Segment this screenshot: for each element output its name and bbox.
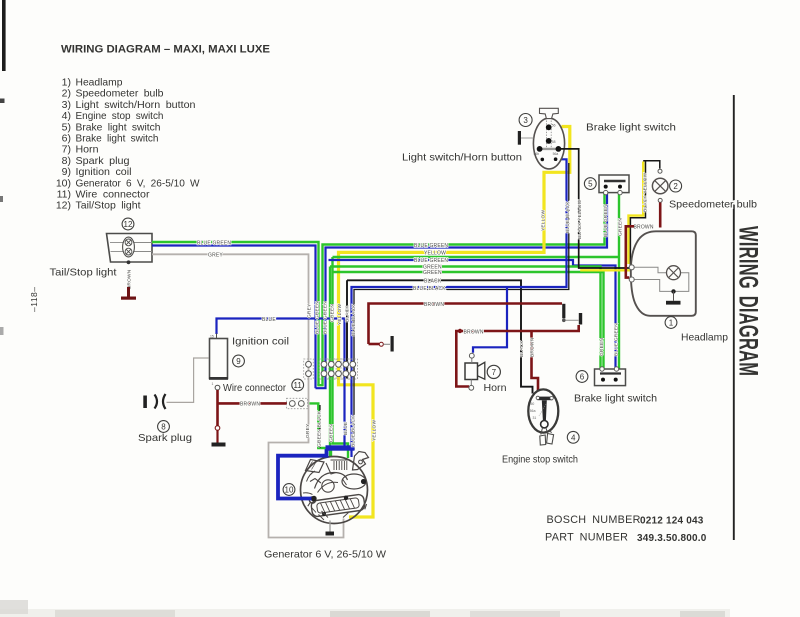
svg-text:4): 4) [62,110,71,122]
svg-text:Tail/Stop light: Tail/Stop light [76,200,141,212]
svg-text:BLUE BLACK: BLUE BLACK [565,201,571,233]
svg-text:56b: 56b [534,152,540,156]
wire black yellow (switch to headlamp) [558,149,631,268]
generator ground stem and pad [329,521,331,532]
wire green B (bundle to brake switch 6) [330,267,601,457]
svg-text:BOSCH NUMBER: BOSCH NUMBER [547,514,641,526]
ref circle 6 [576,371,588,383]
svg-text:6: 6 [580,373,585,382]
wire brown (horn circuit main) [369,304,563,345]
wire brown (coil ground) [216,390,219,426]
wire blue (coil to bundle) [217,319,345,450]
svg-text:BROWN: BROWN [240,402,260,408]
svg-text:GREEN: GREEN [599,338,605,356]
ref circle 3 [519,114,532,127]
light switch 3 body [518,108,565,169]
ref circle 5 [584,178,596,190]
svg-text:4: 4 [571,433,576,442]
spark plug lead [167,358,209,402]
svg-text:PART NUMBER: PART NUMBER [545,532,628,544]
generator blue terminal bar [326,445,355,450]
svg-text:9): 9) [62,166,71,178]
ref circle 2 [670,180,682,192]
svg-text:10: 10 [285,486,294,495]
ground (tail light brown) [121,287,136,300]
armature block [307,493,367,518]
svg-text:Brake light switch: Brake light switch [586,122,676,134]
legend list [56,77,200,212]
svg-text:BLACK YELLOW: BLACK YELLOW [642,172,648,212]
svg-text:GREEN: GREEN [329,424,335,442]
svg-text:WIRING DIAGRAM: WIRING DIAGRAM [733,226,763,376]
svg-text:3): 3) [62,99,71,111]
ground (coil) [212,443,226,447]
svg-text:Horn: Horn [484,382,507,394]
wire blue thick (generator loop) [278,449,327,499]
svg-text:6): 6) [62,133,71,145]
svg-text:BLUE GREEN: BLUE GREEN [613,323,619,356]
svg-text:11): 11) [57,189,71,201]
ref circle 7 [487,365,500,378]
svg-text:BLACK YELLOW: BLACK YELLOW [577,199,583,239]
svg-text:Spark plug: Spark plug [138,432,192,444]
svg-text:56: 56 [552,124,556,128]
svg-text:BLUE: BLUE [262,317,276,323]
wire U-turn green (to connector pair) [319,193,605,386]
svg-text:2): 2) [62,88,71,100]
engine stop switch 4 body [528,389,558,445]
svg-text:Wire connector: Wire connector [76,189,151,201]
ref circle 11 [292,379,304,391]
upper-left rhombus [306,460,325,473]
svg-text:BROWN: BROWN [464,330,484,336]
svg-text:GREEN BLACK: GREEN BLACK [317,410,323,447]
svg-text:Light switch/Horn button: Light switch/Horn button [76,99,196,111]
svg-text:10): 10) [56,177,71,189]
wire blue branch to horn [473,287,507,353]
svg-text:Ignition coil: Ignition coil [232,336,289,348]
generator 10 flywheel magneto [301,452,369,524]
svg-text:Speedometer bulb: Speedometer bulb [76,88,164,100]
svg-text:BLACK: BLACK [519,340,525,357]
svg-text:BLACK: BLACK [424,279,442,285]
svg-text:BLUE GREEN: BLUE GREEN [322,301,328,334]
svg-text:Tail/Stop light: Tail/Stop light [50,267,117,279]
svg-text:Engine stop switch: Engine stop switch [502,454,578,466]
wire green (tail light blue-green pair) [152,242,319,385]
speedometer bulb 2 [652,169,668,202]
wire black yellow (headlamp to speedometer bulb) [629,162,644,265]
svg-text:BROWN: BROWN [634,224,654,230]
svg-text:7: 7 [492,368,497,377]
svg-text:Horn: Horn [76,144,99,156]
wire blue black pair horizontal [352,159,567,457]
svg-text:11: 11 [294,381,303,390]
svg-text:BLUE GREEN: BLUE GREEN [314,301,320,334]
ignition coil 9 body [209,334,228,391]
wire blue (tail light blue-green pair) [152,246,316,389]
horn 7 body [465,353,485,390]
svg-text:12: 12 [124,220,133,229]
svg-text:BLUE BLACK: BLUE BLACK [413,286,446,292]
svg-text:–118–: –118– [29,286,39,312]
wire brown (speedo bulb to headlamp) [659,203,662,228]
svg-text:Brake light switch: Brake light switch [76,121,161,133]
svg-text:GREEN: GREEN [423,270,442,276]
svg-text:Spark plug: Spark plug [76,155,130,167]
ref circle 8 [158,421,170,433]
svg-text:Speedometer bulb: Speedometer bulb [669,199,757,211]
flag top right [353,452,369,471]
right vertical rule [733,95,735,540]
svg-text:58: 58 [552,140,556,144]
svg-text:BLACK: BLACK [344,305,350,322]
wire green A (switch5 right to bundle) [333,257,349,458]
svg-text:BROWN: BROWN [424,302,444,308]
svg-text:YELLOW: YELLOW [424,251,446,257]
scan edge: left black bar [2,0,6,71]
ref circle 1 [665,317,677,329]
svg-text:Headlamp: Headlamp [76,77,123,89]
svg-text:BROWN: BROWN [126,269,132,289]
ref circle 4 [567,431,579,443]
svg-text:1): 1) [62,77,71,89]
svg-text:YELLOW: YELLOW [540,210,546,231]
svg-text:Generator 6 V, 26-5/10 W: Generator 6 V, 26-5/10 W [264,549,386,561]
svg-text:Ignition coil: Ignition coil [76,166,132,178]
svg-text:5): 5) [62,121,71,133]
svg-text:YELLOW: YELLOW [371,420,377,441]
bolt left [309,497,315,503]
ref circle 12 [122,218,134,230]
svg-text:12): 12) [56,200,71,212]
svg-text:BLUE BLACK: BLUE BLACK [351,304,357,336]
cam and breaker [315,473,348,489]
brake light switch 5 body [599,175,629,195]
wire U-turn blue (to connector pair) [316,193,608,389]
svg-text:Brake light switch: Brake light switch [574,393,657,405]
svg-text:8: 8 [161,423,166,432]
svg-text:0212 124 043: 0212 124 043 [640,516,704,527]
svg-text:Light switch/Horn button: Light switch/Horn button [402,152,522,164]
svg-text:YELLOW: YELLOW [337,304,343,325]
svg-text:56a: 56a [530,409,536,413]
svg-text:GREEN: GREEN [618,218,624,236]
wire blue (bundle to brake switch 6) [329,260,616,370]
svg-text:8): 8) [62,155,71,167]
svg-text:Brake light switch: Brake light switch [76,133,159,145]
wire brown engine stop branch [532,331,539,392]
svg-text:56a: 56a [553,152,559,156]
wire yellow (light switch to generator) [339,127,570,518]
svg-text:1: 1 [212,382,214,386]
svg-text:BLUE BLACK: BLUE BLACK [351,415,357,447]
svg-text:GREY: GREY [305,423,311,438]
wire grey (tail light) down to generator box [152,254,344,537]
svg-text:15: 15 [210,335,214,339]
wire black (bundle to engine stop switch) [347,280,533,393]
svg-text:BLUE GREEN: BLUE GREEN [414,258,448,264]
svg-text:Generator 6 V, 26-5/10 W: Generator 6 V, 26-5/10 W [76,177,200,189]
svg-text:1: 1 [669,319,674,328]
points comb [334,461,347,470]
wire connectors (main bundle) [304,359,358,379]
svg-text:5: 5 [588,180,593,189]
svg-text:BLUE: BLUE [343,422,349,435]
svg-text:BLUE GREEN: BLUE GREEN [414,243,448,249]
brake light switch 6 body [595,367,626,386]
condenser [342,474,366,489]
tail/stop light 12 body [107,234,153,265]
headlamp 1 body [629,231,696,315]
svg-text:BLUE GREEN: BLUE GREEN [197,241,231,247]
svg-text:BROWN: BROWN [530,337,536,357]
svg-text:9: 9 [236,357,241,366]
svg-text:31: 31 [533,416,537,420]
ref circle 10 [283,484,295,496]
wire green C (bundle to brake switch 6) [333,272,604,370]
svg-text:Engine stop switch: Engine stop switch [76,110,164,122]
wire brown (coil to wire connector) [218,402,288,405]
svg-text:3: 3 [523,116,528,125]
left tab [518,131,521,145]
ground (brown right / chassis) [562,304,565,319]
svg-text:Wire connector: Wire connector [223,382,286,394]
spark plug 8 symbol [143,394,165,409]
svg-text:50: 50 [531,402,535,406]
wire green black (connector to generator) [310,403,332,456]
svg-text:GREEN: GREEN [329,304,335,322]
svg-text:349.3.50.800.0: 349.3.50.800.0 [637,533,707,544]
svg-text:7): 7) [62,144,71,156]
ground (brown left) [379,342,383,346]
svg-text:BLUE GREEN: BLUE GREEN [603,204,609,237]
ref circle 9 [233,355,245,367]
svg-text:2: 2 [673,182,678,191]
svg-text:WIRING DIAGRAM – MAXI, MAX: WIRING DIAGRAM – MAXI, MAXI LUXE [61,44,271,56]
svg-text:Headlamp: Headlamp [681,332,728,344]
scan edge marks [0,99,5,104]
svg-text:GREY: GREY [208,253,223,259]
wire brown 2 (horn / engine stop feed) [456,325,578,387]
svg-text:GREY: GREY [307,303,313,318]
wire connector 11 (brown wire) [287,398,308,408]
